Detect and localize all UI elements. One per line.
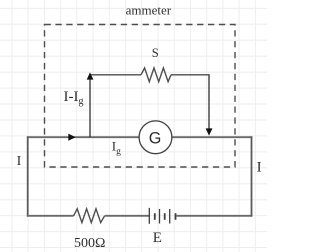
battery E plate 2 (short) [154,213,156,220]
wire: bottom right segment [176,215,252,217]
resistor S zigzag [141,68,171,82]
svg-text:E: E [153,230,162,246]
wire: bottom left segment [27,215,74,217]
wire: left vertical of outer loop [27,136,29,216]
svg-text:S: S [152,46,159,60]
battery E plate 3 (long) [159,209,161,224]
svg-text:I: I [257,159,262,175]
wire: main horizontal (node A to node B through G) [27,136,252,138]
svg-text:G: G [149,130,162,148]
battery E plate 4 (short) [164,213,166,220]
battery E plate 5 (long) [169,209,171,224]
resistor 500ohm zigzag [74,209,105,223]
arrow: down into main wire from shunt branch [206,128,213,135]
svg-text:ammeter: ammeter [126,3,172,18]
ammeter dashed boundary box [45,25,236,168]
battery E plate 6 (short) [175,213,177,220]
battery E plate 1 (long) [148,208,150,224]
arrow: current I-Ig up into shunt branch [87,72,94,79]
wire: shunt branch right vertical [208,75,210,133]
svg-text:500Ω: 500Ω [74,236,105,251]
wire: shunt branch top-right horizontal [171,74,210,76]
wire: bottom middle segment [105,215,150,217]
galvanometer G circle [139,121,172,154]
wire: right vertical of outer loop [251,136,253,216]
wire: shunt branch left vertical [89,75,91,137]
svg-text:I: I [17,154,22,169]
arrow: current I on main wire (right-pointing) [68,134,75,141]
wire: shunt branch top-left horizontal [89,74,141,76]
